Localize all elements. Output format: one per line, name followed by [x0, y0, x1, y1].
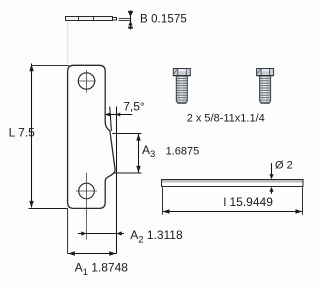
plate front view outline: [68, 65, 116, 208]
pin (bar) side view: [162, 180, 304, 187]
dimension 7,5 degrees: [110, 107, 112, 132]
svg-text:7,5°: 7,5°: [123, 99, 145, 113]
projection line from edge view down to plate: [67, 22, 69, 64]
svg-text:1.6875: 1.6875: [166, 146, 200, 158]
bolt 1: [173, 69, 190, 104]
bolt 2: [257, 69, 274, 104]
leader lines for thickness B: [119, 18, 131, 20]
svg-text:l 15.9449: l 15.9449: [224, 195, 274, 209]
dimension A3: [112, 133, 141, 135]
svg-text:B 0.1575: B 0.1575: [140, 14, 187, 26]
strip bend division lines: [78, 17, 80, 21]
plate edge view (thin strip, top): [66, 17, 117, 21]
svg-text:2 x 5/8-11x1.1/4: 2 x 5/8-11x1.1/4: [187, 113, 265, 125]
dimension A2: [78, 233, 124, 235]
hole 2: [79, 183, 95, 199]
dimension l (bar length): [162, 187, 164, 215]
dimension A1: [67, 208, 69, 253]
svg-text:Ø 2: Ø 2: [275, 159, 293, 171]
dimension B (thickness): [130, 11, 132, 30]
dimension L (left): [32, 64, 70, 66]
dimension diameter 2: [271, 163, 273, 177]
svg-text:L 7.5: L 7.5: [9, 125, 36, 139]
hole 1: [78, 73, 94, 89]
hole 2 centerlines: [76, 190, 97, 192]
hole 1 centerlines: [86, 70, 88, 93]
